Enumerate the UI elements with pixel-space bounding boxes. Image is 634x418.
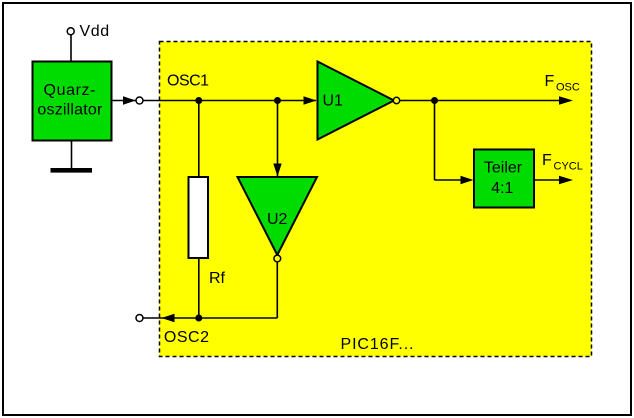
svg-text:OSC2: OSC2	[164, 329, 210, 346]
svg-text:U2: U2	[267, 211, 288, 228]
svg-text:F: F	[545, 73, 555, 90]
svg-text:Rf: Rf	[209, 270, 226, 287]
svg-text:PIC16F...: PIC16F...	[341, 336, 415, 353]
svg-text:CYCL: CYCL	[554, 161, 583, 173]
svg-text:Quarz-: Quarz-	[44, 82, 97, 99]
svg-text:oszillator: oszillator	[37, 102, 103, 119]
svg-text:4:1: 4:1	[491, 180, 513, 197]
svg-text:U1: U1	[323, 93, 344, 110]
svg-text:OSC1: OSC1	[167, 73, 209, 90]
svg-text:Vdd: Vdd	[80, 23, 110, 40]
svg-text:Teiler: Teiler	[484, 159, 523, 176]
svg-text:F: F	[542, 152, 552, 169]
svg-text:OSC: OSC	[556, 82, 580, 94]
